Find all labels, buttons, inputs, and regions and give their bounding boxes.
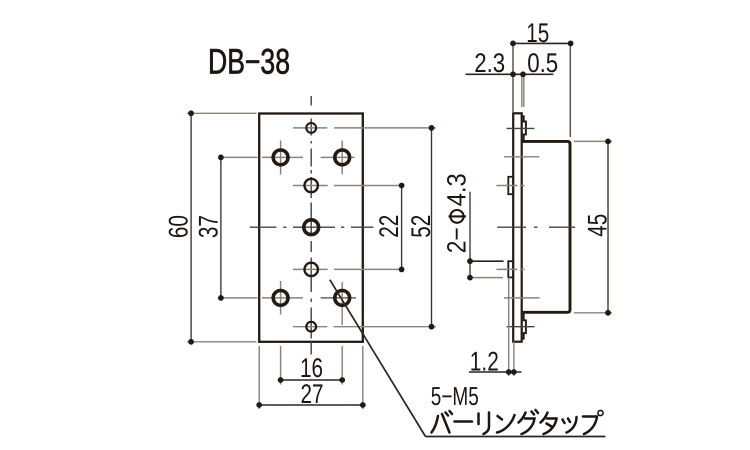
dimension 2-phi4.3 extension lines (470, 261, 504, 277)
svg-text:52: 52 (406, 215, 436, 238)
horizontal centerline of front view (250, 226, 374, 228)
side view bottom burring collar profile (522, 312, 526, 338)
side view crosshair lower M5 pair row (504, 297, 540, 299)
katakana RI (477, 414, 480, 425)
dimension 60 (163, 110, 194, 344)
title DB-38 (208, 42, 290, 82)
svg-text:4.3: 4.3 (442, 173, 472, 206)
M5 tap hole lower-left (273, 291, 288, 306)
dimension 22 (374, 183, 405, 273)
side view crosshair upper M5 pair row (504, 156, 540, 158)
dimension 52 (406, 125, 436, 330)
svg-text:27: 27 (301, 379, 324, 409)
dimension 16 extension lines (281, 346, 343, 385)
svg-text:22: 22 (374, 215, 404, 238)
svg-text:60: 60 (163, 215, 193, 238)
crosshair upper M5 pair row right (321, 141, 355, 175)
svg-text:5−M5: 5−M5 (431, 381, 479, 411)
katakana GU (519, 413, 526, 423)
note text 5-M5 (431, 381, 479, 411)
M5 tap hole upper-right (335, 150, 350, 165)
side view crosshair lower 4.3 hole (496, 268, 524, 270)
crosshair upper M5 pair row left (with ext line for dim 37) (222, 141, 303, 175)
svg-text:2.3: 2.3 (474, 48, 505, 78)
side view plate outline (513, 113, 522, 341)
crosshair upper 4.3 hole row (with ext line for dim 22) (293, 185, 404, 187)
dimension 27 (256, 379, 365, 409)
dimension 60 extension lines (187, 113, 256, 341)
crosshair top small hole row (with ext line for dim 52) (293, 127, 436, 129)
hole top small (306, 123, 316, 133)
M5 tap hole lower-right (335, 291, 350, 306)
svg-text:37: 37 (193, 215, 223, 238)
svg-text:2−: 2− (442, 227, 472, 253)
side view 4.3 hole back boss upper (508, 177, 513, 194)
side view crosshair upper 4.3 hole (496, 185, 524, 187)
svg-text:15: 15 (526, 18, 549, 48)
dimension 27 extension lines (259, 346, 363, 409)
dimension 2.3 and 0.5 extension lines (522, 74, 524, 107)
dimension 16 (278, 353, 345, 383)
svg-text:DB−38: DB−38 (208, 42, 290, 82)
crosshair lower 4.3 hole row (with ext line for dim 22) (293, 268, 404, 270)
side view crosshair top hole (507, 127, 535, 129)
side view top burring collar profile (522, 116, 526, 141)
leader line to 5-M5 note (330, 280, 606, 437)
crosshair lower M5 pair row right (321, 282, 356, 325)
katakana N (498, 416, 503, 420)
crosshair bottom small hole row (with ext line for dim 52) (293, 326, 436, 328)
M5 tap hole center (304, 220, 319, 235)
dimension 37 (193, 155, 223, 301)
side view crosshair bottom hole (507, 326, 535, 328)
dimension 2.3 and 0.5 (466, 48, 559, 78)
dimension 1.2 extension lines (509, 277, 514, 376)
side view horizontal centerline (497, 226, 575, 228)
dimension 45 extension lines (574, 141, 612, 312)
dimension 15 (510, 18, 573, 48)
side view 4.3 hole back boss lower (508, 261, 513, 277)
dimension 45 (583, 139, 613, 316)
hole 4.3 upper (305, 179, 318, 192)
dimension 1.2 (469, 346, 522, 376)
vertical centerline of front view (310, 96, 312, 355)
katakana TA (541, 413, 548, 423)
crosshair lower M5 pair row left (with ext line for dim 37) (222, 281, 303, 315)
svg-text:45: 45 (583, 214, 613, 237)
side view flange (bumper block) (522, 141, 570, 312)
svg-text:1.2: 1.2 (470, 346, 499, 376)
katakana PU (583, 417, 597, 435)
hole 4.3 lower (305, 263, 318, 276)
M5 tap hole upper-left (273, 150, 288, 165)
note text burring tap (katakana) (432, 410, 604, 434)
katakana long vowel bar (455, 420, 473, 423)
svg-text:0.5: 0.5 (527, 48, 558, 78)
dimension 2-phi4.3 (442, 173, 473, 280)
hole bottom small (306, 322, 316, 332)
dimension 15 extension lines (513, 43, 570, 137)
front view plate outline (259, 114, 363, 342)
katakana BA (432, 416, 439, 433)
katakana small TSU (563, 420, 565, 424)
